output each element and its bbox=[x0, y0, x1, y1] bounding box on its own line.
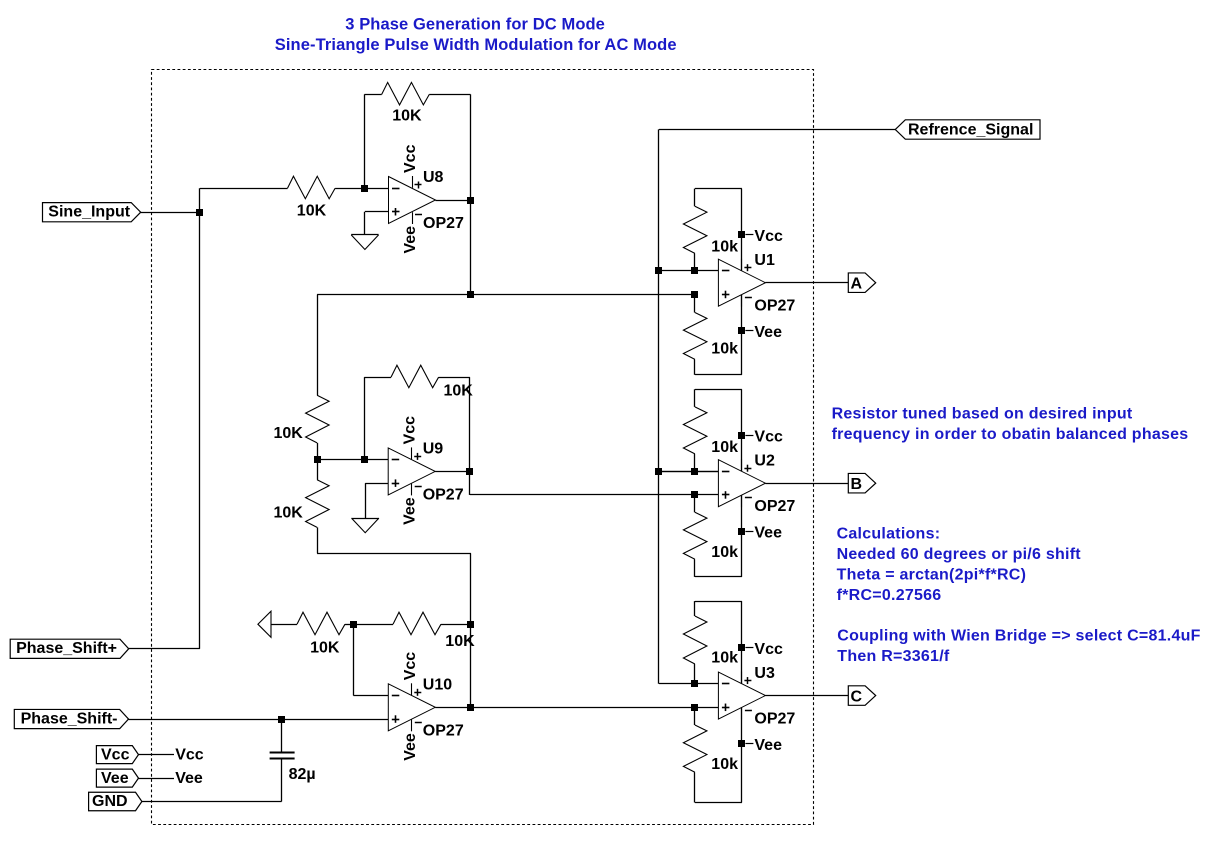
wire bbox=[353, 624, 355, 695]
wire bbox=[694, 495, 696, 512]
supply pin Vee bbox=[738, 324, 782, 341]
dashed boundary box bbox=[152, 70, 814, 825]
svg-text:Vcc: Vcc bbox=[754, 429, 783, 446]
svg-text:OP27: OP27 bbox=[754, 498, 795, 515]
wire bbox=[695, 601, 742, 603]
wire bbox=[695, 188, 742, 190]
junction bbox=[691, 680, 698, 687]
supply pin Vcc bbox=[738, 641, 783, 658]
open connection arrow bbox=[258, 611, 271, 637]
wire bbox=[659, 270, 718, 272]
resistor 10k (U3 lower) bbox=[683, 725, 738, 773]
svg-text:10k: 10k bbox=[711, 649, 738, 666]
ground bbox=[352, 518, 379, 533]
wire bbox=[659, 129, 895, 131]
wire bbox=[317, 294, 319, 395]
wire bbox=[439, 377, 470, 379]
wire bbox=[741, 389, 743, 471]
wire bbox=[317, 553, 471, 555]
junction bbox=[278, 716, 285, 723]
wire bbox=[470, 94, 472, 294]
junction bbox=[691, 291, 698, 298]
svg-text:10k: 10k bbox=[711, 341, 738, 358]
wire bbox=[695, 389, 742, 391]
junction bbox=[691, 267, 698, 274]
junction bbox=[655, 267, 662, 274]
wire bbox=[435, 707, 471, 709]
net label Vee bbox=[175, 770, 203, 787]
svg-text:Then R=3361/f: Then R=3361/f bbox=[837, 648, 950, 665]
svg-text:Refrence_Signal: Refrence_Signal bbox=[908, 122, 1033, 139]
svg-text:10K: 10K bbox=[297, 203, 327, 220]
wire bbox=[694, 454, 696, 472]
wire bbox=[129, 719, 389, 721]
wire bbox=[765, 483, 848, 485]
op-amp U10 bbox=[388, 652, 464, 761]
junction bbox=[691, 704, 698, 711]
port Sine_Input bbox=[43, 203, 141, 222]
wire bbox=[200, 188, 288, 190]
wire bbox=[694, 601, 696, 616]
svg-text:OP27: OP27 bbox=[754, 711, 795, 728]
svg-text:U3: U3 bbox=[754, 665, 775, 682]
supply pin Vee bbox=[738, 737, 782, 754]
wire bbox=[139, 778, 175, 780]
svg-text:Needed 60 degrees or pi/6 shif: Needed 60 degrees or pi/6 shift bbox=[837, 546, 1082, 563]
junction bbox=[350, 621, 357, 628]
svg-text:Vee: Vee bbox=[402, 733, 419, 761]
wire bbox=[429, 94, 470, 96]
svg-text:Vcc: Vcc bbox=[754, 641, 783, 658]
wire bbox=[335, 188, 388, 190]
svg-text:U2: U2 bbox=[754, 453, 775, 470]
wire bbox=[659, 471, 718, 473]
svg-text:Phase_Shift+: Phase_Shift+ bbox=[16, 640, 117, 657]
junction bbox=[466, 468, 473, 475]
op-amp U1 bbox=[718, 252, 795, 315]
annotation: calculations bbox=[837, 525, 1082, 604]
junction bbox=[361, 185, 368, 192]
wire bbox=[317, 460, 319, 480]
port Refrence_Signal bbox=[895, 120, 1040, 139]
port Phase_Shift- bbox=[14, 709, 128, 728]
junction bbox=[691, 491, 698, 498]
resistor 10k (U1 lower) bbox=[683, 313, 738, 360]
wire bbox=[317, 443, 319, 460]
svg-text:GND: GND bbox=[92, 793, 128, 810]
svg-text:Phase_Shift-: Phase_Shift- bbox=[21, 711, 118, 728]
junction bbox=[196, 209, 203, 216]
svg-text:OP27: OP27 bbox=[754, 298, 795, 315]
wire bbox=[741, 189, 743, 271]
wire bbox=[364, 377, 391, 379]
wire bbox=[345, 624, 353, 626]
wire bbox=[281, 758, 283, 801]
wire bbox=[139, 754, 175, 756]
wire bbox=[694, 559, 696, 577]
svg-text:U8: U8 bbox=[423, 169, 444, 186]
net label Vcc bbox=[175, 746, 204, 763]
wire bbox=[659, 471, 718, 473]
wire bbox=[470, 553, 472, 707]
svg-text:C: C bbox=[851, 688, 863, 705]
wire bbox=[142, 801, 282, 803]
wire bbox=[471, 707, 719, 709]
svg-text:Vee: Vee bbox=[402, 497, 419, 525]
port Vee bbox=[96, 769, 138, 787]
wire bbox=[741, 601, 743, 684]
wire bbox=[694, 253, 696, 271]
wire bbox=[695, 802, 742, 804]
svg-text:Vcc: Vcc bbox=[402, 144, 419, 173]
wire bbox=[694, 772, 696, 802]
junction bbox=[655, 468, 662, 475]
svg-text:A: A bbox=[851, 276, 863, 293]
svg-text:f*RC=0.27566: f*RC=0.27566 bbox=[837, 587, 942, 604]
supply pin Vcc bbox=[738, 228, 783, 245]
junction bbox=[314, 456, 321, 463]
svg-text:Vcc: Vcc bbox=[754, 228, 783, 245]
resistor 10k (U2 lower) bbox=[683, 512, 738, 561]
annotation: resistor tuning note bbox=[832, 405, 1189, 443]
resistor 10K (U8 input) bbox=[288, 176, 336, 219]
resistor 10k (U3 upper) bbox=[683, 616, 738, 666]
svg-text:Sine-Triangle Pulse Width Modu: Sine-Triangle Pulse Width Modulation for… bbox=[275, 36, 677, 54]
wire bbox=[741, 295, 743, 375]
wire bbox=[436, 200, 471, 202]
annotation: wien bridge coupling bbox=[837, 628, 1200, 666]
title text bbox=[275, 16, 677, 55]
wire bbox=[765, 695, 848, 697]
wire bbox=[659, 683, 718, 685]
svg-text:10k: 10k bbox=[711, 238, 738, 255]
wire bbox=[364, 94, 366, 188]
svg-text:10K: 10K bbox=[274, 504, 304, 521]
svg-text:Vee: Vee bbox=[101, 770, 129, 787]
svg-text:Vcc: Vcc bbox=[101, 746, 130, 763]
svg-text:Vcc: Vcc bbox=[402, 416, 419, 445]
wire bbox=[281, 719, 283, 752]
port Phase_Shift+ bbox=[10, 639, 129, 658]
svg-text:Vcc: Vcc bbox=[175, 746, 204, 763]
wire bbox=[364, 94, 381, 96]
supply pin Vee bbox=[738, 524, 782, 541]
wire bbox=[694, 294, 696, 312]
wire bbox=[694, 389, 696, 407]
wire bbox=[694, 359, 696, 374]
wire bbox=[765, 282, 848, 284]
svg-text:Vee: Vee bbox=[175, 770, 203, 787]
svg-text:Resistor tuned based on desire: Resistor tuned based on desired input bbox=[832, 405, 1133, 422]
svg-text:10K: 10K bbox=[310, 639, 340, 656]
resistor 10k (U2 upper) bbox=[683, 407, 738, 456]
wire bbox=[199, 188, 201, 649]
wire bbox=[741, 495, 743, 577]
op-amp U2 bbox=[718, 453, 795, 516]
port GND bbox=[89, 792, 142, 811]
capacitor 82µ bbox=[270, 753, 316, 784]
wire bbox=[353, 695, 388, 697]
wire bbox=[470, 494, 719, 496]
svg-text:10K: 10K bbox=[392, 108, 422, 125]
svg-text:Vcc: Vcc bbox=[402, 652, 419, 681]
svg-text:frequency in order to obatin b: frequency in order to obatin balanced ph… bbox=[832, 426, 1189, 443]
junction bbox=[691, 468, 698, 475]
wire bbox=[741, 707, 743, 802]
op-amp U8 bbox=[389, 144, 465, 253]
wire bbox=[129, 648, 200, 650]
svg-text:Theta = arctan(2pi*f*RC): Theta = arctan(2pi*f*RC) bbox=[837, 566, 1027, 583]
svg-text:U10: U10 bbox=[423, 676, 452, 693]
output port A bbox=[848, 273, 875, 293]
svg-text:Vee: Vee bbox=[754, 324, 782, 341]
resistor 10k (U1 upper) bbox=[683, 206, 738, 255]
wire bbox=[695, 576, 742, 578]
junction bbox=[467, 291, 474, 298]
wire bbox=[141, 212, 200, 214]
svg-text:U1: U1 bbox=[754, 252, 775, 269]
svg-text:10k: 10k bbox=[711, 439, 738, 456]
svg-text:U9: U9 bbox=[423, 440, 444, 457]
wire bbox=[365, 483, 388, 518]
svg-text:Sine_Input: Sine_Input bbox=[48, 203, 130, 220]
wire bbox=[435, 471, 470, 473]
resistor 10K (U9 feedback) bbox=[391, 365, 473, 399]
wire bbox=[365, 212, 389, 235]
junction bbox=[467, 621, 474, 628]
svg-text:B: B bbox=[851, 476, 863, 493]
svg-text:10K: 10K bbox=[274, 425, 304, 442]
svg-text:Vee: Vee bbox=[754, 737, 782, 754]
wire bbox=[695, 374, 742, 376]
wire bbox=[317, 459, 388, 461]
wire bbox=[271, 624, 297, 626]
output port C bbox=[848, 686, 875, 706]
resistor 10K (U10 input) bbox=[297, 612, 345, 656]
wire bbox=[694, 664, 696, 684]
junction bbox=[361, 456, 368, 463]
resistor 10K (U10 feedback) bbox=[393, 612, 475, 650]
svg-text:82µ: 82µ bbox=[289, 766, 316, 783]
junction bbox=[467, 704, 474, 711]
ground bbox=[351, 235, 378, 250]
wire bbox=[353, 624, 393, 626]
svg-text:OP27: OP27 bbox=[423, 722, 464, 739]
svg-text:10k: 10k bbox=[711, 544, 738, 561]
svg-text:Calculations:: Calculations: bbox=[837, 525, 941, 542]
op-amp U3 bbox=[718, 665, 795, 728]
svg-text:OP27: OP27 bbox=[423, 486, 464, 503]
wire bbox=[317, 527, 319, 553]
svg-text:OP27: OP27 bbox=[423, 215, 464, 232]
resistor 10K (U8 feedback) bbox=[382, 82, 430, 124]
wire bbox=[469, 471, 471, 495]
wire bbox=[364, 377, 366, 459]
output port B bbox=[848, 473, 875, 493]
svg-text:3 Phase Generation for DC Mode: 3 Phase Generation for DC Mode bbox=[345, 16, 605, 34]
wire bbox=[694, 189, 696, 207]
svg-text:10K: 10K bbox=[445, 633, 475, 650]
resistor 10K (U9 lower input) bbox=[274, 480, 330, 528]
svg-text:Vee: Vee bbox=[402, 226, 419, 254]
svg-text:10k: 10k bbox=[711, 756, 738, 773]
svg-text:Vee: Vee bbox=[754, 524, 782, 541]
supply pin Vcc bbox=[738, 429, 783, 446]
wire bbox=[441, 624, 471, 626]
resistor 10K (U9 upper input) bbox=[274, 395, 330, 443]
junction bbox=[467, 197, 474, 204]
op-amp U9 bbox=[388, 416, 464, 525]
svg-text:10K: 10K bbox=[444, 382, 474, 399]
wire bbox=[469, 377, 471, 471]
svg-text:Coupling with Wien Bridge => s: Coupling with Wien Bridge => select C=81… bbox=[837, 628, 1200, 645]
wire bbox=[694, 707, 696, 725]
port Vcc bbox=[96, 746, 138, 764]
wire bbox=[317, 294, 695, 296]
wire bbox=[658, 129, 660, 683]
